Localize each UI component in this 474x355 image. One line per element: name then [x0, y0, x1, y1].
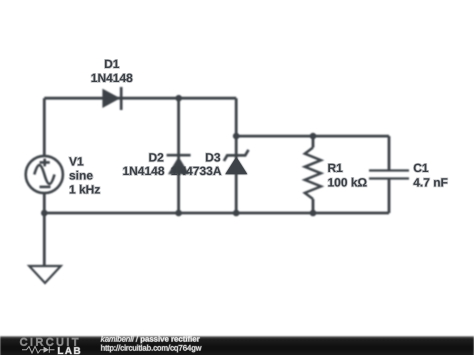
label C1	[413, 161, 429, 175]
wire R1 top lead	[312, 136, 315, 147]
wire C1 bottom lead	[388, 179, 391, 213]
wire mid rail	[236, 135, 389, 138]
svg-text:1N4148: 1N4148	[91, 71, 133, 85]
svg-text:D1: D1	[104, 57, 120, 71]
wire top rail	[44, 97, 236, 100]
wire V1 bottom lead	[43, 193, 46, 213]
wire C1 top lead	[388, 136, 391, 170]
value 4.7 nF (C1)	[413, 176, 448, 190]
node dot bottom at D2	[175, 210, 182, 217]
logo icon resistor	[22, 347, 44, 354]
footer title line	[101, 335, 200, 344]
wire D2 branch	[177, 98, 180, 213]
svg-text:D2: D2	[148, 151, 164, 165]
value 100 kOhm (R1)	[328, 176, 368, 190]
zener diode D3	[224, 150, 249, 175]
footer bar	[0, 336, 474, 355]
svg-text:4.7 nF: 4.7 nF	[413, 176, 448, 190]
footer url line	[101, 343, 202, 352]
svg-text:V1: V1	[69, 155, 84, 169]
logo icon diode	[44, 347, 55, 353]
resistor R1	[305, 148, 321, 200]
value sine (V1)	[69, 169, 93, 183]
voltage source V1	[26, 156, 63, 193]
label R1	[328, 161, 344, 175]
svg-text:D3: D3	[205, 151, 221, 165]
diode D1	[102, 87, 121, 110]
wire left drop	[43, 98, 46, 156]
wire ground lead	[43, 213, 46, 266]
wire D3 branch	[235, 98, 238, 213]
node dot bottom at D3	[233, 210, 240, 217]
svg-text:1N4733A: 1N4733A	[171, 164, 222, 178]
svg-text:1 kHz: 1 kHz	[69, 183, 100, 197]
logo text LAB	[57, 346, 82, 355]
node dot top of D2	[175, 95, 182, 102]
svg-text:kamibenli / passive rectifier: kamibenli / passive rectifier	[101, 335, 200, 344]
node dot mid rail at D3	[233, 133, 240, 140]
wire bottom rail	[44, 212, 389, 215]
D3 triangle overlap cover	[225, 157, 247, 175]
svg-text:R1: R1	[328, 161, 344, 175]
label V1	[69, 155, 84, 169]
value 1N4148 (D2)	[122, 164, 164, 178]
svg-text:1N4148: 1N4148	[122, 164, 164, 178]
label D3	[205, 151, 221, 165]
node dot mid rail at R1	[310, 133, 317, 140]
value 1N4733A (D3)	[171, 164, 222, 178]
capacitor C1	[369, 171, 409, 179]
wire R1 bottom lead	[312, 199, 315, 213]
value 1 kHz (V1)	[69, 183, 100, 197]
ground	[29, 266, 61, 283]
diode D2	[167, 155, 191, 174]
logo text CIRCUIT	[20, 337, 81, 349]
svg-text:http://circuitlab.com/cq764gw: http://circuitlab.com/cq764gw	[101, 343, 202, 352]
svg-text:C1: C1	[413, 161, 429, 175]
node dot bottom at V1	[41, 210, 48, 217]
value 1N4148 (D1)	[91, 71, 133, 85]
label D2	[148, 151, 164, 165]
svg-text:LAB: LAB	[57, 346, 82, 355]
node dot bottom at R1	[310, 210, 317, 217]
svg-text:100 kΩ: 100 kΩ	[328, 176, 368, 190]
svg-text:sine: sine	[69, 169, 93, 183]
label D1	[104, 57, 120, 71]
